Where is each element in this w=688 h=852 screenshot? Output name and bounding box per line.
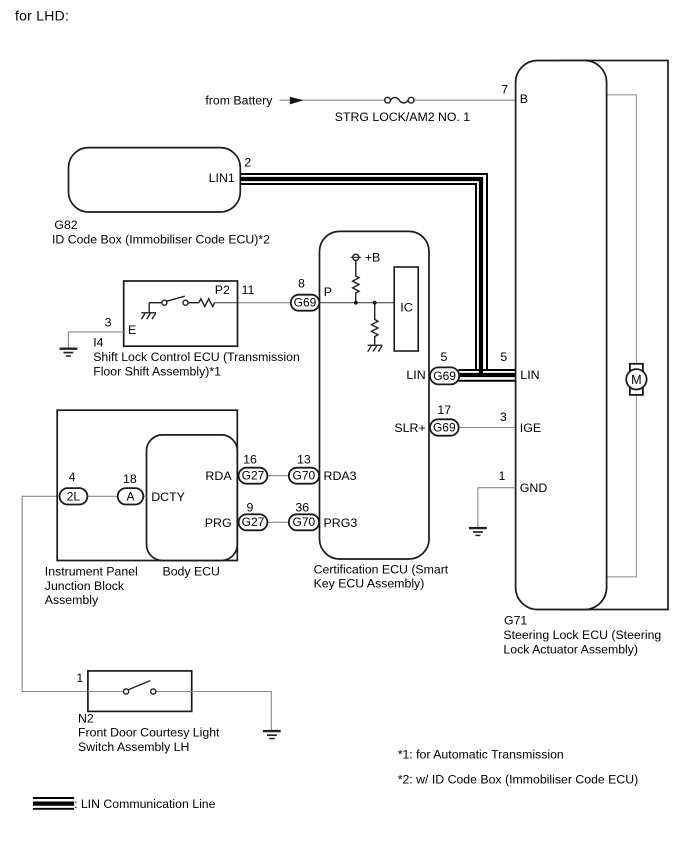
svg-text:16: 16 <box>243 452 257 466</box>
connector G69 (SLR+) <box>430 419 459 435</box>
svg-text:36: 36 <box>295 500 309 514</box>
svg-text:2L: 2L <box>67 489 81 503</box>
svg-text:Floor Shift Assembly)*1: Floor Shift Assembly)*1 <box>93 365 221 379</box>
steering lock ECU box G71 <box>516 61 607 610</box>
LIN communication line from LIN1 (thick core) <box>240 179 481 375</box>
svg-text:9: 9 <box>247 500 254 514</box>
instrument panel junction block box <box>57 410 237 560</box>
svg-text:Switch Assembly LH: Switch Assembly LH <box>78 740 189 754</box>
svg-text:3: 3 <box>105 315 112 329</box>
N2 box <box>88 671 192 712</box>
wire from battery to fuse <box>280 99 385 101</box>
svg-text:G71: G71 <box>504 614 527 628</box>
svg-text:13: 13 <box>297 452 311 466</box>
wire RDA G27-G70 <box>267 475 289 477</box>
wire resistor to pin 11 edge <box>215 302 237 304</box>
connector A <box>118 488 144 504</box>
svg-text:B: B <box>520 92 528 106</box>
junction node 1 <box>354 301 358 305</box>
svg-text:7: 7 <box>501 83 508 97</box>
LIN line to G71 (thin upper) <box>459 369 516 371</box>
svg-text:PRG: PRG <box>205 516 232 530</box>
svg-text:IC: IC <box>400 300 412 314</box>
svg-text:G82: G82 <box>54 218 77 232</box>
wire 2L to A <box>60 495 120 497</box>
connector G27 (RDA) <box>239 468 268 484</box>
E wire to ground <box>68 332 123 348</box>
svg-text:+B: +B <box>365 251 381 265</box>
battery arrow <box>290 97 304 105</box>
GND wire to ground <box>478 488 516 528</box>
wire SLR+ to IGE <box>459 427 516 429</box>
svg-text:STRG LOCK/AM2 NO. 1: STRG LOCK/AM2 NO. 1 <box>335 110 470 124</box>
switch P2 <box>162 296 188 305</box>
svg-text:Steering Lock ECU (Steering: Steering Lock ECU (Steering <box>503 628 661 642</box>
LIN communication line from LIN1 (thin upper) <box>240 174 487 369</box>
svg-text:1: 1 <box>499 469 506 483</box>
svg-text:Assembly: Assembly <box>45 593 99 607</box>
svg-text:3: 3 <box>500 410 507 424</box>
svg-text:Front Door Courtesy Light: Front Door Courtesy Light <box>78 726 220 740</box>
switch ground (hatch) <box>141 303 156 319</box>
svg-text:G27: G27 <box>242 515 265 529</box>
motor loop wire <box>607 95 637 577</box>
svg-text:GND: GND <box>520 481 548 495</box>
svg-text:LIN1: LIN1 <box>209 171 235 185</box>
svg-text:A: A <box>126 489 134 503</box>
svg-text:Shift Lock Control ECU (Transm: Shift Lock Control ECU (Transmission <box>93 350 300 364</box>
svg-text:G70: G70 <box>293 469 316 483</box>
svg-text:2: 2 <box>244 156 251 170</box>
svg-text:: LIN Communication Line: : LIN Communication Line <box>74 797 216 811</box>
body ECU box <box>147 435 238 561</box>
wire switch to resistor <box>188 302 199 304</box>
ground G71 (3-bar) <box>469 528 487 535</box>
connector 2L <box>60 488 88 504</box>
wire PRG G27-G70 <box>267 521 289 523</box>
svg-text:I4: I4 <box>93 335 103 349</box>
svg-text:*2: w/ ID Code Box (Immobilise: *2: w/ ID Code Box (Immobiliser Code ECU… <box>398 772 639 786</box>
svg-text:1: 1 <box>76 671 83 685</box>
wire N2 pin 1 to switch <box>88 691 124 693</box>
internal wire P to IC <box>320 302 395 304</box>
svg-text:DCTY: DCTY <box>151 490 185 504</box>
connector G69 (LIN) <box>430 367 459 384</box>
svg-text:P2: P2 <box>215 283 230 297</box>
wire DCTY leftwards and down <box>22 496 88 691</box>
LIN line to G71 (thin lower) <box>459 380 516 382</box>
svg-text:for LHD:: for LHD: <box>15 7 69 23</box>
svg-text:SLR+: SLR+ <box>394 421 425 435</box>
N2 right wire to ground <box>192 692 272 731</box>
svg-text:Key ECU Assembly): Key ECU Assembly) <box>314 577 425 591</box>
svg-text:Junction Block: Junction Block <box>45 579 125 593</box>
certification ECU box <box>320 231 430 559</box>
svg-text:17: 17 <box>437 403 451 417</box>
svg-text:G69: G69 <box>294 296 317 310</box>
svg-text:PRG3: PRG3 <box>324 516 358 530</box>
shift lock control ECU box I4 <box>124 281 238 346</box>
resistor in shift lock ECU <box>199 299 215 307</box>
svg-text:LIN: LIN <box>406 368 425 382</box>
svg-text:G69: G69 <box>433 421 456 435</box>
svg-text:5: 5 <box>500 350 507 364</box>
svg-text:*1: for Automatic Transmission: *1: for Automatic Transmission <box>398 748 564 762</box>
internal ground (hatch) <box>368 345 383 351</box>
+B terminal <box>351 254 361 264</box>
svg-text:IGE: IGE <box>520 421 541 435</box>
ID code box G82 <box>69 148 241 212</box>
wire switch to N2 right side <box>156 691 192 693</box>
resistor R (pull-down) <box>372 303 378 345</box>
connector G70 (RDA3) <box>289 468 319 484</box>
wire fuse to pin B <box>414 99 516 101</box>
svg-text:8: 8 <box>298 276 305 290</box>
legend LIN line symbol <box>33 798 74 809</box>
svg-text:5: 5 <box>441 350 448 364</box>
junction node 2 <box>373 301 377 305</box>
svg-text:G70: G70 <box>293 515 316 529</box>
svg-text:from Battery: from Battery <box>205 93 273 107</box>
LIN line to G71 (thick core) <box>459 373 516 377</box>
motor M <box>626 364 646 395</box>
svg-text:18: 18 <box>123 472 137 486</box>
connector G70 (PRG3) <box>289 514 319 530</box>
svg-text:G27: G27 <box>242 469 265 483</box>
fuse STRG LOCK/AM2 NO. 1 <box>385 97 414 103</box>
svg-text:G69: G69 <box>433 369 456 383</box>
ground I4 (3-bar) <box>60 349 78 356</box>
svg-text:RDA: RDA <box>205 469 232 483</box>
svg-text:ID Code Box (Immobiliser Code: ID Code Box (Immobiliser Code ECU)*2 <box>52 232 270 246</box>
steering lock actuator outer frame <box>560 61 668 610</box>
svg-text:LIN: LIN <box>520 368 539 382</box>
svg-text:M: M <box>631 373 642 387</box>
svg-text:RDA3: RDA3 <box>324 469 357 483</box>
LIN communication line from LIN1 (thin lower) <box>240 184 476 369</box>
connector G69 (P) <box>291 295 320 311</box>
ground N2 (3-bar) <box>263 731 281 738</box>
IC block <box>394 267 418 351</box>
svg-text:Body ECU: Body ECU <box>163 564 220 578</box>
svg-text:Certification ECU (Smart: Certification ECU (Smart <box>314 562 449 576</box>
connector G27 (PRG) <box>239 514 268 530</box>
wire pin 11 to G69 <box>237 302 292 304</box>
resistor R (+B pull-up) <box>353 260 359 302</box>
svg-text:P: P <box>324 285 332 299</box>
wire switch to ground stem <box>149 302 162 304</box>
wire A to DCTY <box>142 495 147 497</box>
svg-text:E: E <box>128 323 136 337</box>
svg-text:4: 4 <box>69 470 76 484</box>
svg-text:Instrument Panel: Instrument Panel <box>45 564 138 578</box>
svg-text:11: 11 <box>242 283 255 297</box>
courtesy light switch <box>124 681 156 695</box>
svg-text:N2: N2 <box>78 711 94 725</box>
svg-text:Lock Actuator Assembly): Lock Actuator Assembly) <box>503 642 638 656</box>
